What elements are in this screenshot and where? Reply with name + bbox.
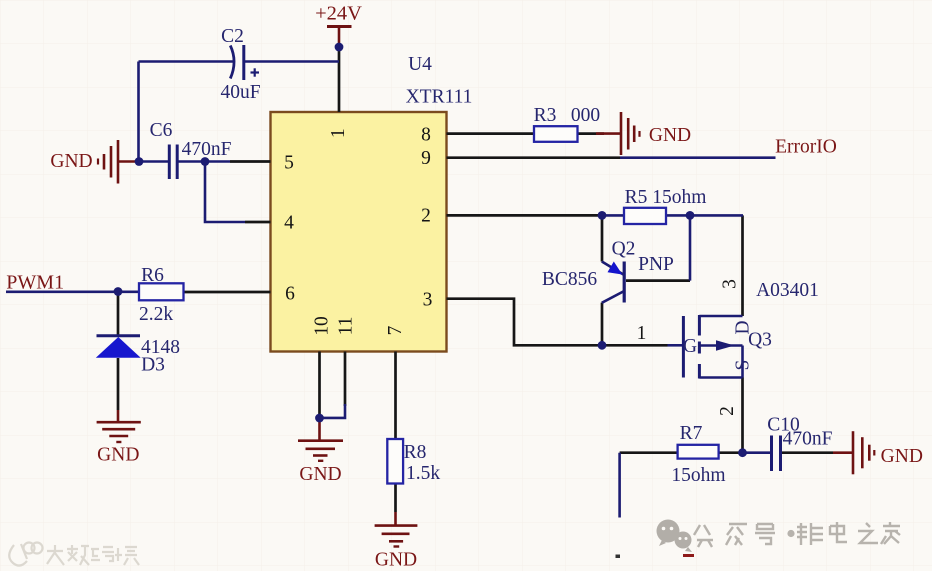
svg-text:40uF: 40uF: [220, 82, 260, 103]
svg-text:PWM1: PWM1: [6, 272, 64, 294]
svg-text:ErrorIO: ErrorIO: [775, 137, 837, 158]
svg-text:PNP: PNP: [638, 254, 674, 275]
svg-text:10: 10: [312, 316, 333, 336]
svg-text:GND: GND: [881, 446, 923, 467]
svg-text:470nF: 470nF: [182, 139, 232, 160]
svg-text:Q2: Q2: [612, 239, 636, 260]
svg-text:4: 4: [284, 213, 294, 234]
svg-text:15ohm: 15ohm: [671, 465, 725, 486]
svg-text:U4: U4: [408, 54, 432, 75]
svg-text:XTR111: XTR111: [406, 87, 473, 108]
svg-text:D3: D3: [141, 355, 165, 376]
svg-text:470nF: 470nF: [783, 429, 833, 450]
svg-text:GND: GND: [375, 550, 417, 571]
svg-text:C2: C2: [221, 26, 244, 47]
svg-text:2: 2: [421, 206, 431, 227]
svg-text:R8: R8: [404, 442, 427, 463]
svg-text:D: D: [733, 320, 754, 334]
svg-text:A03401: A03401: [756, 280, 819, 301]
svg-text:GND: GND: [299, 464, 341, 485]
svg-text:000: 000: [571, 105, 600, 126]
svg-text:6: 6: [285, 284, 295, 305]
svg-text:R7: R7: [680, 423, 703, 444]
svg-text:GND: GND: [50, 151, 92, 172]
svg-text:R5 15ohm: R5 15ohm: [625, 187, 707, 208]
svg-text:GND: GND: [97, 445, 139, 466]
svg-text:BC856: BC856: [542, 269, 598, 290]
svg-text:7: 7: [385, 325, 406, 335]
svg-text:1.5k: 1.5k: [406, 463, 440, 484]
svg-text:2.2k: 2.2k: [139, 304, 173, 325]
svg-text:GND: GND: [649, 125, 691, 146]
svg-text:R3: R3: [534, 105, 557, 126]
svg-text:11: 11: [336, 317, 357, 336]
svg-text:3: 3: [423, 290, 433, 311]
svg-text:S: S: [733, 360, 754, 371]
svg-text:1: 1: [328, 128, 349, 138]
svg-text:2: 2: [717, 406, 738, 416]
svg-text:9: 9: [421, 148, 431, 169]
svg-text:R6: R6: [141, 265, 164, 286]
svg-text:8: 8: [421, 124, 431, 145]
svg-text:+24V: +24V: [315, 3, 362, 25]
svg-text:1: 1: [637, 323, 647, 344]
svg-text:G: G: [683, 336, 697, 357]
svg-text:C6: C6: [150, 120, 173, 141]
svg-text:3: 3: [720, 279, 741, 289]
svg-text:5: 5: [284, 153, 294, 174]
